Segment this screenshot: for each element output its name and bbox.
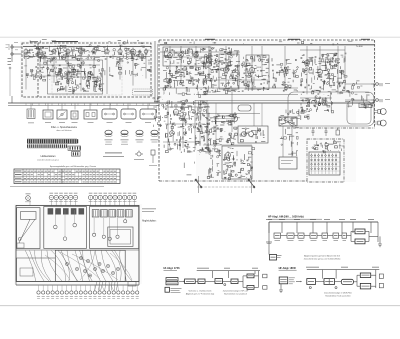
svg-text:HF-Abgl. UKW: HF-Abgl. UKW xyxy=(279,267,297,270)
scan tint schematic band xyxy=(14,41,376,284)
dash-dot box keyboard assembly xyxy=(307,139,344,182)
component cluster ratio detector xyxy=(300,53,347,95)
svg-text:Nachstimmen nur praktisch: Nachstimmen nur praktisch xyxy=(224,293,247,296)
wire second bottom rail xyxy=(8,103,159,106)
chassis wiring fan xyxy=(25,251,132,282)
caption voltage table xyxy=(50,165,96,168)
component cluster IF stage 2 xyxy=(241,55,270,91)
component cluster mains filter xyxy=(279,111,300,127)
component cluster IF stage 1 xyxy=(203,48,242,94)
diagram AM chain boxes xyxy=(274,222,378,244)
tube IF V5 xyxy=(223,66,228,74)
tube socket diagram single xyxy=(25,194,31,203)
filter module F2 xyxy=(57,110,67,123)
tube V7 xyxy=(304,59,309,67)
electrolytic cap symbol xyxy=(336,128,340,135)
speaker LS2 xyxy=(375,120,387,126)
svg-text:Zwischenkreisabgl. in NF u.ZF: Zwischenkreisabgl. in NF u.ZF xyxy=(223,290,249,293)
component cluster keyboard wiring xyxy=(312,140,344,153)
tube V8 xyxy=(317,68,322,76)
tube V5 xyxy=(79,48,83,55)
chassis outline xyxy=(16,206,139,286)
tube IF V4 xyxy=(206,56,211,64)
speaker LS1 xyxy=(375,109,387,115)
tube socket diagrams group 1 xyxy=(49,193,78,202)
coil former L4 xyxy=(151,130,159,142)
tube V8 xyxy=(118,48,122,55)
component cluster oscillator coils xyxy=(55,68,104,94)
component cluster AF preamp xyxy=(196,113,240,132)
FM tuner shield box xyxy=(163,47,211,66)
keyboard contact box xyxy=(309,152,340,175)
svg-text:Lötösenleisten: Lötösenleisten xyxy=(41,155,57,158)
component cluster AF preamp EM84 xyxy=(164,100,212,153)
label IF section titles xyxy=(205,39,370,40)
mains transformer box xyxy=(279,117,297,126)
tube FM V2 xyxy=(179,51,184,59)
filter module F1 xyxy=(43,110,53,123)
capacitor under chassis line 2 xyxy=(325,128,328,136)
component cluster output coupling xyxy=(345,81,374,109)
diagram 3 chain xyxy=(296,273,383,289)
diagram AM ground xyxy=(378,236,382,246)
chassis bottom pin row xyxy=(37,282,139,300)
tube output EL xyxy=(225,151,230,159)
tube V1 xyxy=(24,48,28,55)
label Tastensatz xyxy=(333,141,341,144)
tube V4 xyxy=(66,48,70,55)
component cluster AF takeoff xyxy=(153,97,164,127)
wire filter row drops xyxy=(31,103,148,110)
label Abgleichplan xyxy=(142,209,157,223)
IF shield can 1 xyxy=(219,54,239,89)
svg-text:Ratiodetektor Trafo ausricht: Ratiodetektor Trafo ausrichten xyxy=(325,294,350,297)
wire vertical drops IF section xyxy=(170,46,345,94)
screening box inner xyxy=(48,60,103,94)
wire amp verticals xyxy=(196,103,262,146)
component cluster oscillator xyxy=(77,59,101,79)
component cluster tone network xyxy=(207,145,221,178)
label row tuner xyxy=(30,39,143,44)
wire vertical drops AM section xyxy=(26,56,146,94)
svg-text:Zwischenkreise genau am Schluß: Zwischenkreise genau am Schluß (Werk) xyxy=(304,259,341,261)
component cluster FM box xyxy=(164,48,212,65)
transformer windings xyxy=(242,130,257,139)
component cluster rectifier xyxy=(240,127,265,142)
wire speaker leads xyxy=(345,84,371,100)
svg-text:Hf-Abgl. 1746: Hf-Abgl. 1746 xyxy=(164,267,181,270)
chassis middle block xyxy=(44,207,87,249)
coil former L3 xyxy=(136,130,144,142)
dotted screening cage xyxy=(52,51,122,95)
filter module F7 xyxy=(140,109,156,123)
filter module F3 xyxy=(71,111,78,123)
IF shield can 2 xyxy=(246,55,269,89)
label box Abstimmanzeige xyxy=(133,89,153,95)
component cluster coupling caps xyxy=(285,109,310,120)
component cluster FM below xyxy=(163,66,212,98)
label Ta600 xyxy=(356,46,363,48)
alignment tool symbol xyxy=(134,151,144,160)
page top edge xyxy=(0,36,400,38)
wire sub-rails xyxy=(24,50,345,98)
svg-text:Zwischenkreisabgl. in UKW-Filt: Zwischenkreisabgl. in UKW-Filter xyxy=(324,291,352,294)
tube V10 xyxy=(144,48,148,55)
component cluster mains section xyxy=(280,129,298,156)
tube V7 xyxy=(105,48,109,55)
diagram 2 generator box xyxy=(165,287,182,292)
antenna input terminals xyxy=(6,42,23,103)
trimmer block xyxy=(27,109,35,123)
chassis keyboard area xyxy=(55,250,125,281)
component cluster output stage xyxy=(301,95,334,113)
tube AF V11 xyxy=(173,108,178,116)
wire rail box A xyxy=(23,46,151,48)
chassis right block xyxy=(90,207,139,249)
page bottom edge xyxy=(0,305,400,307)
diagram AM generator xyxy=(266,222,282,260)
svg-text:(von der Lötseite aus ges.): (von der Lötseite aus ges.) xyxy=(37,158,59,161)
tube FM V1 xyxy=(168,51,173,59)
svg-text:Abgleichplan:: Abgleichplan: xyxy=(142,219,157,222)
dashed shield box AM/mixer section xyxy=(22,43,151,97)
chassis left block (transformer) xyxy=(17,208,40,249)
tube V9 xyxy=(130,48,136,57)
wire interstage channel xyxy=(155,41,158,103)
coil former L2 xyxy=(121,130,129,144)
caption Werkbild xyxy=(103,153,124,157)
label AM section title xyxy=(30,41,78,42)
wire speaker feedback loop xyxy=(288,92,374,126)
soldering strip (dark block) xyxy=(27,139,81,156)
component cluster detector xyxy=(272,58,299,91)
caption soldering strip xyxy=(37,155,59,161)
caption Filter- u. Spulenbausteine xyxy=(51,126,78,132)
voltage table grid xyxy=(14,169,120,184)
diagram 2 top line xyxy=(197,268,260,278)
tube socket diagrams group 2 xyxy=(88,193,136,202)
wire B+ rail top xyxy=(160,44,374,46)
tube AF V12 xyxy=(170,129,175,137)
capacitor under chassis line 1 xyxy=(312,128,315,136)
component cluster switch leads xyxy=(184,152,200,175)
svg-text:Abgleich gem. 17 Punkte bri: Abgleich gem. 17 Punkte brin legt xyxy=(186,293,215,296)
tube FM V3 xyxy=(194,51,199,59)
separator line xyxy=(10,186,104,188)
wire mains leads xyxy=(283,126,292,157)
power supply box xyxy=(238,126,268,143)
filter module F4 xyxy=(84,110,97,123)
switch S2 xyxy=(248,176,255,193)
diagram 2 chain xyxy=(166,271,267,290)
svg-text:Vorkreise u. Oszillator beim: Vorkreise u. Oszillator beim xyxy=(188,290,211,293)
svg-text:Spannungstabelle gem. mit Röhr: Spannungstabelle gem. mit Röhrenvoltm. g… xyxy=(50,165,96,168)
component cluster AM top row xyxy=(24,44,150,61)
connector plug 2 xyxy=(371,99,383,102)
chassis rear tab xyxy=(128,282,136,287)
wire long bottom rail xyxy=(8,102,375,104)
chassis lower-left blocks xyxy=(17,258,56,281)
tube V2 xyxy=(38,48,42,55)
component cluster AM IF xyxy=(105,58,151,76)
AF coupling choke box xyxy=(215,116,238,122)
diagram 3 generator block xyxy=(279,277,295,293)
component cluster antenna coil xyxy=(24,66,37,80)
switch S1 xyxy=(195,176,202,193)
connector plug 1 xyxy=(371,83,383,86)
label plug 2 xyxy=(385,98,390,101)
output transformer rounded box xyxy=(232,88,251,132)
svg-text:Ta 600: Ta 600 xyxy=(356,46,363,48)
filter module F5 xyxy=(102,109,117,123)
component cluster mixer xyxy=(39,56,75,81)
tube IF V6 xyxy=(249,66,254,74)
coil former L1 xyxy=(105,130,113,144)
diagram title Hf-Abgl 1746 xyxy=(164,267,181,270)
svg-text:HF-Abgl. AM (560 ... 1630 kHz: HF-Abgl. AM (560 ... 1630 kHz) xyxy=(268,216,304,219)
label row IF xyxy=(165,41,353,45)
wire AF preamp verticals xyxy=(163,100,210,150)
tube V3 xyxy=(52,48,56,55)
chassis boundary dash-dot line xyxy=(159,128,375,187)
diagram title HF-Abgl UKW xyxy=(279,267,297,270)
svg-text:Filter- u. Spulenbausteine: Filter- u. Spulenbausteine xyxy=(51,126,78,129)
diagram AM caption xyxy=(304,254,341,260)
svg-text:Abgleichpunkte gemäß in Abschn: Abgleichpunkte gemäß in Abschnitte 3/4 xyxy=(304,254,341,257)
diagram 3 caption xyxy=(324,291,352,297)
voltage selector box xyxy=(279,157,297,169)
diagram AM top line xyxy=(266,219,378,233)
diagram title HF-Abgl AM xyxy=(268,216,322,220)
keyboard contacts xyxy=(310,153,340,174)
tube V6 xyxy=(92,48,96,55)
component cluster AF driver xyxy=(205,133,237,145)
dashed shield box IF-FM section xyxy=(159,40,375,181)
diagram 2 captions xyxy=(186,290,249,296)
filter module F6 xyxy=(121,109,136,123)
diagram 3 top line xyxy=(306,267,379,288)
amplifier box xyxy=(222,146,252,179)
chassis numbered callouts xyxy=(65,256,119,277)
chassis top terminal leaders xyxy=(30,200,134,206)
core stack symbol xyxy=(149,150,157,166)
wire mid rail xyxy=(195,95,310,101)
label plug 1 xyxy=(385,82,390,85)
component cluster output amp xyxy=(223,147,255,179)
svg-text:oben: mit Gehäuse: oben: mit Gehäuse xyxy=(56,129,71,132)
label terminal block xyxy=(359,103,372,108)
